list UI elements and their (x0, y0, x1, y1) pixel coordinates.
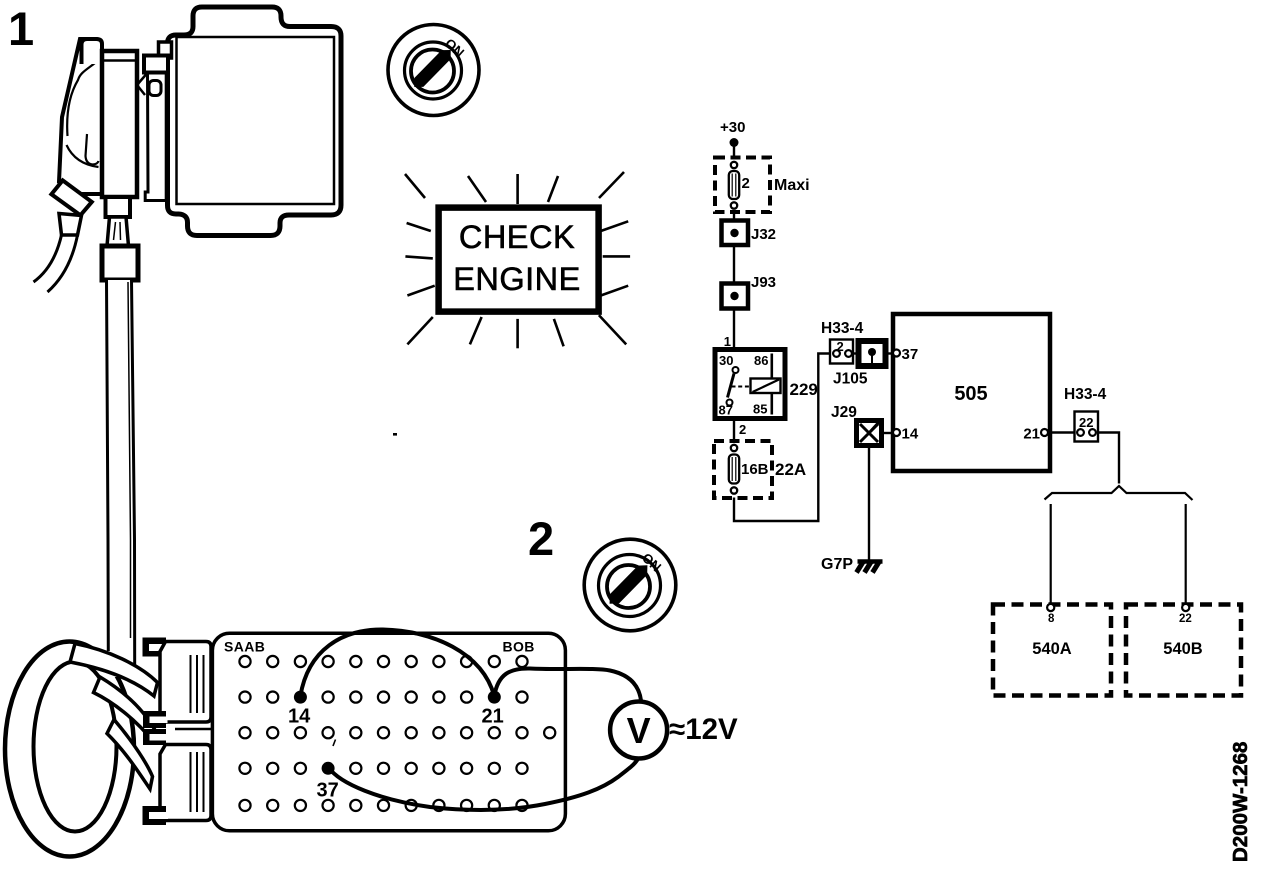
junction J105 (859, 341, 886, 366)
svg-text:2: 2 (528, 512, 554, 565)
fuse Maxi element (729, 162, 739, 209)
CHECK ENGINE warning lamp (405, 172, 630, 348)
svg-text:16B: 16B (741, 461, 769, 478)
lamp rays (405, 172, 630, 348)
BOB middle tabs (143, 711, 166, 728)
fuse 16B element (729, 445, 739, 494)
breakout box BOB panel (212, 633, 565, 831)
svg-text:86: 86 (754, 353, 768, 368)
voltmeter V (610, 702, 667, 759)
ignition key symbol ON (figure 1) (388, 25, 479, 116)
test wire pin37 to voltmeter (328, 760, 637, 810)
svg-text:J29: J29 (831, 404, 857, 421)
fuse Maxi (2) dashed box (715, 158, 770, 213)
node +30 (720, 119, 745, 147)
svg-text:37: 37 (902, 346, 919, 363)
svg-text:+30: +30 (720, 119, 745, 136)
wire branch bracket (1045, 486, 1193, 500)
pin 14 (893, 429, 900, 436)
svg-text:J105: J105 (833, 371, 868, 388)
svg-text:J32: J32 (751, 226, 776, 243)
svg-text:BOB: BOB (503, 639, 535, 655)
svg-text:1: 1 (724, 334, 731, 349)
test wire pin21 to voltmeter (494, 668, 641, 700)
stray mark (393, 433, 397, 436)
svg-text:2: 2 (739, 422, 746, 437)
thin harness wires (34, 235, 62, 282)
stray mark 2 (333, 740, 336, 747)
svg-text:505: 505 (954, 383, 987, 405)
rail eyelet (149, 81, 161, 96)
main connector body (102, 51, 137, 197)
svg-text:540A: 540A (1032, 640, 1072, 658)
svg-text:V: V (627, 710, 651, 751)
fuse 16B / 22A dashed box (714, 441, 772, 498)
loop cable C (107, 720, 153, 790)
wire to 540B (1185, 504, 1187, 604)
wire J105 to 505 pin 37 (886, 352, 895, 354)
ECU housing outline (168, 7, 342, 236)
connector H33-4 pin circles (1077, 429, 1084, 436)
svg-text:229: 229 (790, 380, 818, 399)
wire +30 to fuse Maxi (733, 147, 735, 159)
cable ferrule (angled) (51, 180, 91, 215)
svg-text:Maxi: Maxi (774, 177, 810, 194)
pin 37 (893, 350, 900, 357)
wire relay pin 2 to fuse 16B (733, 419, 735, 442)
svg-text:21: 21 (1023, 426, 1040, 443)
wire J29 to ground (868, 446, 870, 560)
cable ferrule 2 (102, 246, 138, 280)
svg-text:21: 21 (482, 706, 504, 728)
BOB bottom tab (143, 806, 167, 825)
relay coil (751, 379, 781, 394)
component 540A dashed box (993, 605, 1111, 696)
probe pin 21 (488, 691, 501, 704)
svg-text:G7P: G7P (821, 556, 853, 573)
loop cable B (94, 677, 156, 741)
loop inner (34, 662, 117, 832)
connector lower block (106, 197, 131, 217)
BOB plug top tab (143, 638, 167, 657)
wire pin 21 to H33-4 pin 22 (1048, 431, 1075, 433)
component 540B dashed box (1126, 605, 1241, 696)
svg-text:22A: 22A (775, 460, 806, 479)
wire J32 to J93 (733, 245, 735, 284)
540B pin 22 (1182, 604, 1189, 611)
wire Maxi to J32 (733, 212, 735, 221)
540A pin 8 (1047, 604, 1054, 611)
junction J32 (722, 221, 749, 246)
harness clip (137, 75, 146, 96)
CIRCUIT SCHEMATIC (714, 119, 1241, 696)
ECU unit illustration (34, 7, 342, 292)
svg-text:8: 8 (1048, 613, 1055, 625)
relay 229 (715, 350, 785, 419)
svg-text:85: 85 (753, 402, 767, 417)
rail top block (144, 56, 168, 73)
connector latch (82, 39, 103, 64)
svg-text:22: 22 (1179, 613, 1192, 625)
svg-text:D200W-1268: D200W-1268 (1229, 742, 1252, 862)
test wire pin14 to pin21 (300, 629, 494, 696)
main cable down (107, 280, 136, 677)
svg-text:SAAB: SAAB (224, 639, 265, 655)
strain relief tube (107, 217, 129, 246)
svg-text:30: 30 (719, 353, 733, 368)
ignition key symbol ON (figure 2) (584, 539, 676, 631)
wire to 540A (1050, 504, 1052, 604)
loop cable A (70, 644, 158, 697)
ECU top-left tab (159, 42, 172, 58)
svg-text:1: 1 (8, 2, 34, 55)
hand holding connector (59, 39, 102, 194)
svg-text:14: 14 (288, 706, 311, 728)
svg-text:J93: J93 (751, 274, 776, 291)
svg-text:14: 14 (902, 426, 919, 443)
wire fuse 16B down right and up to H33-4 (734, 354, 830, 522)
svg-text:≈12V: ≈12V (669, 713, 738, 746)
cable loop illustration (5, 280, 212, 857)
BOB lower plug (160, 745, 211, 821)
probe pin 14 (294, 691, 307, 704)
svg-text:22: 22 (1079, 415, 1093, 430)
svg-text:540B: 540B (1163, 640, 1203, 658)
wire J93 to relay pin 1 (733, 309, 735, 350)
svg-text:H33-4: H33-4 (821, 320, 864, 337)
ECU lid inner rect (177, 37, 335, 204)
probe pin 37 (322, 762, 335, 775)
relay switch contact (733, 367, 739, 373)
ferrule leg (59, 214, 82, 236)
svg-text:37: 37 (317, 780, 339, 802)
mounting rail (145, 73, 166, 201)
svg-text:H33-4: H33-4 (1064, 386, 1107, 403)
BOB test holes grid (239, 656, 555, 811)
svg-text:2: 2 (742, 175, 750, 192)
ECU box 505 (893, 314, 1050, 471)
svg-text:CHECK: CHECK (459, 219, 575, 255)
svg-text:ENGINE: ENGINE (453, 261, 581, 297)
loop outer (5, 642, 134, 857)
BOB upper plug (160, 642, 211, 723)
relay pin labels 30 86 87 85 (719, 353, 769, 418)
wire J29 to 505 pin 14 (882, 432, 895, 434)
